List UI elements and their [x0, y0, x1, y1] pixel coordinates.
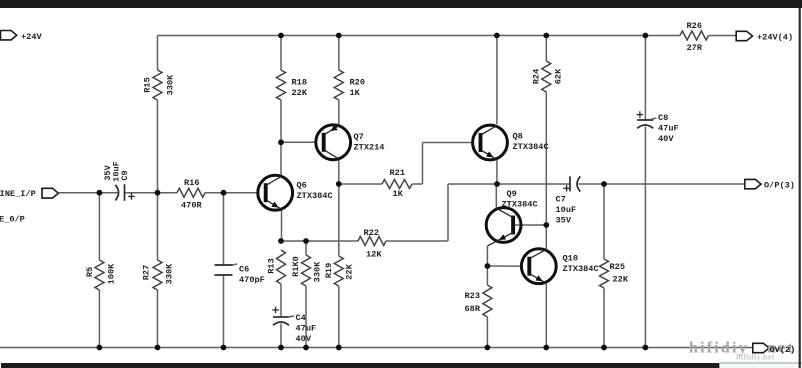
svg-text:27R: 27R — [687, 43, 703, 53]
svg-text:470R: 470R — [181, 201, 202, 211]
svg-text:R26: R26 — [687, 21, 702, 31]
svg-text:22K: 22K — [292, 88, 308, 98]
svg-text:R24: R24 — [532, 69, 542, 84]
svg-text:22K: 22K — [345, 263, 355, 279]
svg-text:40V: 40V — [296, 334, 312, 344]
svg-text:Q8: Q8 — [513, 132, 523, 142]
svg-text:R18: R18 — [292, 78, 307, 88]
svg-text:R5: R5 — [85, 267, 95, 277]
svg-text:ZTX384C: ZTX384C — [297, 191, 333, 201]
svg-text:+24V: +24V — [21, 32, 42, 42]
svg-text:1K: 1K — [393, 189, 404, 199]
svg-text:R23: R23 — [465, 291, 480, 301]
svg-text:10uF: 10uF — [556, 205, 577, 215]
svg-text:C7: C7 — [556, 195, 566, 205]
svg-text:R20: R20 — [350, 78, 365, 88]
svg-text:470pF: 470pF — [239, 275, 265, 285]
svg-text:1K: 1K — [350, 88, 361, 98]
svg-text:C6: C6 — [239, 265, 249, 275]
svg-text:Q6: Q6 — [297, 181, 307, 191]
svg-text:330K: 330K — [313, 261, 323, 282]
svg-text:E_0/P: E_0/P — [0, 215, 25, 225]
svg-text:Q9: Q9 — [507, 189, 517, 199]
svg-text:R22: R22 — [364, 228, 379, 238]
svg-text:330K: 330K — [165, 263, 175, 284]
svg-text:C9: C9 — [120, 170, 130, 180]
svg-text:R13: R13 — [267, 258, 277, 273]
svg-text:12K: 12K — [366, 250, 382, 260]
svg-text:22K: 22K — [613, 275, 629, 285]
svg-text:100K: 100K — [107, 263, 117, 284]
svg-text:C8: C8 — [658, 113, 668, 123]
svg-text:330K: 330K — [166, 74, 176, 95]
svg-text:47uF: 47uF — [658, 124, 679, 134]
svg-text:ZTX384C: ZTX384C — [513, 142, 549, 152]
svg-text:O/P(3): O/P(3) — [764, 181, 795, 191]
svg-text:ZTX384C: ZTX384C — [563, 264, 599, 274]
svg-text:R27: R27 — [142, 265, 152, 280]
svg-text:R21: R21 — [390, 168, 405, 178]
svg-text:40V: 40V — [658, 134, 674, 144]
svg-text:R19: R19 — [324, 263, 334, 278]
svg-text:68R: 68R — [465, 304, 481, 314]
svg-text:ZTX384C: ZTX384C — [502, 200, 538, 210]
svg-text:C4: C4 — [296, 313, 306, 323]
svg-text:0V(2): 0V(2) — [770, 345, 796, 355]
svg-text:R16: R16 — [184, 178, 199, 188]
svg-text:Q10: Q10 — [563, 254, 578, 264]
svg-text:R25: R25 — [610, 262, 625, 272]
svg-text:LINE_I/P: LINE_I/P — [0, 189, 36, 199]
svg-text:+24V(4): +24V(4) — [757, 33, 793, 43]
svg-text:R1K0: R1K0 — [291, 256, 301, 277]
svg-text:R15: R15 — [143, 77, 153, 92]
svg-text:35V: 35V — [556, 216, 572, 226]
svg-text:Q7: Q7 — [354, 132, 364, 142]
svg-text:ZTX214: ZTX214 — [354, 143, 385, 153]
svg-text:62K: 62K — [554, 68, 564, 84]
svg-text:47uF: 47uF — [296, 324, 317, 334]
